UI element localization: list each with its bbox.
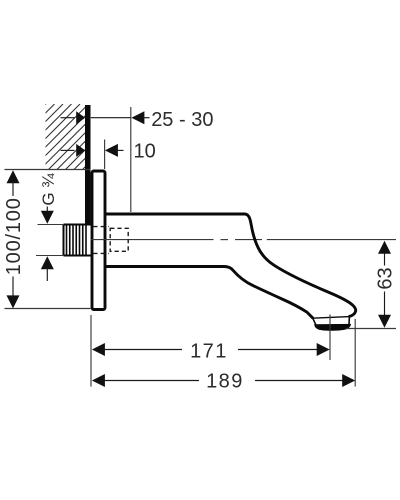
dimension 171	[92, 340, 330, 362]
dimension 10	[61, 141, 156, 163]
dimension 189	[92, 371, 355, 393]
dimension G3/4	[39, 173, 58, 281]
dimension 63	[375, 241, 397, 328]
spout body bottom contour	[106, 267, 313, 318]
wall hatching	[0, 104, 148, 170]
extension line flange top (100/100 upper)	[5, 169, 91, 171]
extension line 171/189 left	[90, 315, 92, 387]
svg-text:63: 63	[375, 267, 397, 289]
extension line 10 right (flange face)	[104, 140, 106, 170]
hidden inlet connector (dashed)	[93, 227, 128, 254]
extension line 189 right	[354, 319, 356, 387]
centerline	[91, 239, 397, 241]
escutcheon flange	[92, 171, 105, 310]
extension line 25-30 right	[130, 107, 132, 212]
dimension 25-30	[61, 109, 214, 131]
svg-text:G ¾: G ¾	[39, 173, 58, 206]
svg-text:189: 189	[206, 371, 244, 393]
aerator outlet	[313, 316, 351, 330]
threaded inlet pipe G3/4	[36, 224, 91, 256]
wall surface line	[85, 105, 91, 226]
svg-text:25 - 30: 25 - 30	[151, 109, 213, 131]
extension line 171 right	[329, 315, 331, 361]
extension line flange bottom (100/100 lower)	[5, 308, 91, 310]
dimension 100/100	[3, 170, 25, 308]
extension line 63 bottom	[346, 328, 396, 330]
svg-text:10: 10	[134, 141, 156, 163]
svg-text:100/100: 100/100	[3, 197, 25, 275]
spout body top contour	[106, 214, 356, 316]
svg-text:171: 171	[190, 340, 228, 362]
